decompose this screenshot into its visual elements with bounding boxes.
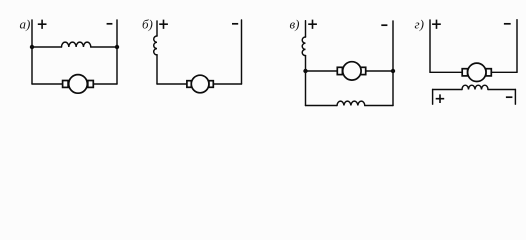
- wire: bottom left segment: [157, 83, 187, 85]
- wire: left vertical: [429, 20, 431, 72]
- wire: left vertical upper stub: [305, 21, 307, 37]
- wire: left vertical upper stub: [156, 21, 158, 36]
- motor M2 armature: [187, 75, 213, 93]
- svg-text:а): а): [20, 17, 31, 32]
- svg-text:б): б): [142, 17, 153, 32]
- wire: excitation top right segment: [488, 89, 515, 91]
- wire: bottom left segment (armature circuit): [430, 71, 462, 73]
- wire: right vertical: [392, 21, 394, 106]
- wire: bottom right segment: [365, 105, 393, 107]
- wire: left vertical lower segment: [305, 56, 307, 106]
- motor M3 armature: [337, 62, 365, 80]
- plus terminal label: [159, 20, 168, 29]
- minus terminal label: [232, 23, 238, 25]
- plus terminal label (excitation): [436, 94, 445, 103]
- inductor L5 (separately excited field winding): [462, 85, 488, 89]
- minus terminal label (armature circuit): [504, 23, 511, 25]
- wire: right vertical: [116, 20, 118, 84]
- wire: left vertical: [31, 20, 33, 84]
- wire: middle horizontal left segment: [306, 70, 338, 72]
- motor M4 armature: [462, 63, 491, 81]
- wire: right vertical: [516, 20, 518, 73]
- wire: bottom left segment: [306, 105, 338, 107]
- plus terminal label (armature circuit): [432, 20, 441, 29]
- node: junction right: [391, 69, 395, 73]
- wire: left vertical lower segment: [156, 55, 158, 84]
- minus terminal label (excitation): [506, 96, 513, 98]
- wire: middle horizontal right segment: [366, 70, 393, 72]
- plus terminal label: [38, 20, 47, 29]
- excitation source: right stub: [514, 90, 516, 105]
- excitation source: left stub: [432, 90, 434, 105]
- inductor L2 (series field winding, vertical): [154, 36, 157, 55]
- wire: bottom right segment: [213, 83, 241, 85]
- plus terminal label: [308, 20, 317, 29]
- wire: bottom left segment: [32, 83, 63, 85]
- motor M1 armature: [63, 75, 94, 94]
- inductor L3 (series field winding, vertical): [302, 37, 305, 56]
- wire: bottom right segment: [93, 83, 117, 85]
- inductor L4 (shunt field winding): [337, 101, 365, 105]
- minus terminal label: [107, 23, 113, 25]
- wire: top horizontal left segment: [32, 46, 62, 48]
- wire: excitation top left segment: [433, 89, 462, 91]
- wire: top horizontal right segment: [91, 46, 117, 48]
- inductor L1 (shunt field winding): [62, 42, 91, 47]
- wire: bottom right segment (armature circuit): [491, 71, 517, 73]
- wire: right vertical: [241, 20, 243, 84]
- svg-text:в): в): [290, 17, 300, 32]
- minus terminal label: [381, 24, 387, 26]
- svg-text:г): г): [415, 17, 424, 32]
- node: junction right: [115, 45, 119, 49]
- node: junction left: [30, 45, 34, 49]
- node: junction left: [303, 69, 307, 73]
